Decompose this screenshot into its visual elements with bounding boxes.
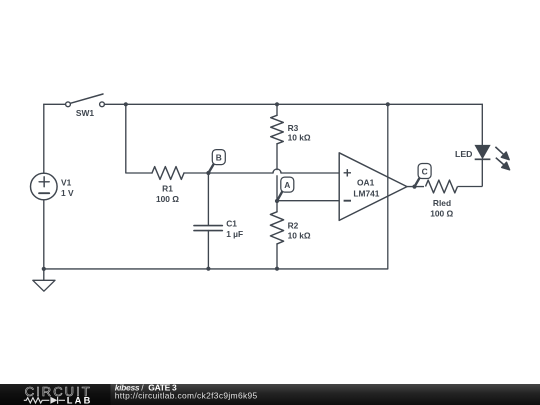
svg-text:C: C: [422, 166, 428, 176]
svg-text:B: B: [216, 152, 222, 162]
wire top rail: [104, 103, 482, 105]
wire hop over divider: [273, 169, 281, 173]
wire op-amp output to node C: [407, 186, 424, 188]
ground: [33, 280, 55, 291]
op-amp OA1: [339, 153, 407, 221]
junction top rail to power: [386, 102, 390, 106]
wire R1 to node B: [184, 172, 208, 174]
resistor R2: [270, 212, 283, 244]
svg-text:V1: V1: [61, 178, 72, 188]
wire top-left horizontal to SW1: [44, 103, 66, 105]
svg-text:10 kΩ: 10 kΩ: [288, 230, 311, 240]
svg-text:Rled: Rled: [433, 198, 451, 208]
svg-text:http://circuitlab.com/ck2f3c9j: http://circuitlab.com/ck2f3c9jm6k95: [115, 391, 258, 401]
svg-text:10 kΩ: 10 kΩ: [288, 133, 311, 143]
resistor R1: [152, 167, 184, 180]
wire R3 to node A (gap at hop): [276, 144, 278, 201]
junction top rail to R3: [275, 102, 279, 106]
svg-text:R1: R1: [162, 184, 173, 194]
wire junction down to R1: [126, 104, 152, 173]
junction R2 bottom: [275, 267, 279, 271]
footer bar: [0, 384, 540, 405]
wire C1 to bottom rail: [207, 231, 209, 269]
svg-text:A: A: [284, 180, 290, 190]
wire left vertical V1 top: [43, 104, 45, 173]
wire node A to R2: [276, 201, 278, 212]
LED arrows: [495, 147, 509, 170]
switch SW1: [66, 94, 105, 107]
svg-text:R3: R3: [288, 123, 299, 133]
svg-text:C1: C1: [226, 218, 237, 228]
svg-text:LED: LED: [455, 149, 472, 159]
svg-text:100 Ω: 100 Ω: [430, 208, 453, 218]
voltage source V1: [31, 173, 58, 200]
resistor R3: [271, 115, 284, 143]
svg-text:R2: R2: [288, 221, 299, 231]
wire top rail junction to R3: [276, 104, 278, 115]
svg-text:100 Ω: 100 Ω: [156, 194, 179, 204]
resistor Rled: [426, 180, 458, 193]
wire ground stub: [43, 269, 45, 280]
wire left vertical V1 bottom: [43, 200, 45, 269]
wire right vertical to LED: [481, 104, 483, 145]
labels: [61, 108, 472, 241]
junction top rail to R1: [124, 102, 128, 106]
svg-text:LAB: LAB: [67, 396, 93, 405]
node flag C: [415, 164, 431, 187]
capacitor C1: [194, 226, 222, 231]
svg-text:SW1: SW1: [76, 108, 94, 118]
wire node B to op-amp plus: [208, 172, 339, 174]
junction ground: [42, 267, 46, 271]
svg-text:1 V: 1 V: [61, 188, 74, 198]
junction C1 bottom: [206, 267, 210, 271]
wire R2 to bottom rail: [276, 244, 278, 269]
LED diode: [475, 145, 491, 159]
logo icon resistor+diode: [24, 397, 65, 404]
wire node A to op-amp minus: [277, 200, 339, 202]
wire op-amp power vertical: [387, 104, 389, 268]
node B junction: [206, 171, 210, 175]
node flag B: [209, 150, 226, 173]
wire node B down to C1: [207, 173, 209, 225]
node C junction: [412, 185, 416, 189]
svg-text:LM741: LM741: [353, 189, 379, 199]
wire Rled to LED: [458, 159, 483, 187]
wire bottom rail: [44, 268, 388, 270]
svg-text:OA1: OA1: [357, 178, 375, 188]
svg-text:1 µF: 1 µF: [226, 229, 243, 239]
node flag A: [277, 177, 294, 200]
node A junction: [275, 199, 279, 203]
